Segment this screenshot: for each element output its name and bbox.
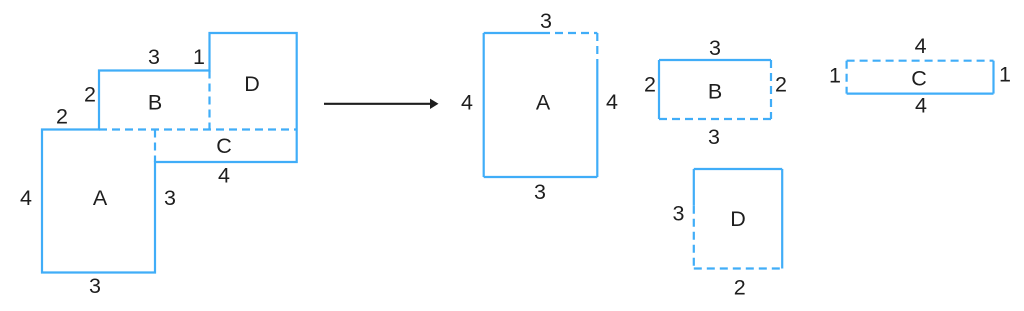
svg-text:C: C bbox=[216, 134, 232, 158]
hidden edge: left of C / right of A (dashed) bbox=[154, 130, 156, 163]
svg-text:B: B bbox=[708, 80, 722, 104]
svg-text:4: 4 bbox=[20, 186, 32, 210]
D bottom edge (dashed) bbox=[694, 267, 782, 269]
rectangle B (separated) bbox=[644, 36, 787, 149]
A bottom edge (solid) bbox=[484, 176, 598, 178]
svg-text:2: 2 bbox=[644, 73, 656, 97]
A right edge dashed part bbox=[596, 33, 598, 63]
B right edge (dashed) bbox=[770, 60, 772, 119]
rectangle C (separated) bbox=[829, 34, 1011, 118]
svg-text:3: 3 bbox=[164, 186, 176, 210]
svg-text:2: 2 bbox=[56, 105, 68, 129]
svg-text:D: D bbox=[730, 207, 746, 231]
B left edge (solid) bbox=[658, 60, 660, 119]
svg-text:B: B bbox=[148, 91, 162, 115]
composite figure outline (A+B+C+D overlapped) bbox=[42, 33, 297, 273]
D top edge (solid) bbox=[694, 168, 782, 170]
svg-text:2: 2 bbox=[84, 83, 96, 107]
svg-text:3: 3 bbox=[148, 45, 160, 69]
svg-text:3: 3 bbox=[534, 180, 546, 204]
svg-text:D: D bbox=[244, 72, 260, 96]
D right edge (solid) bbox=[781, 169, 783, 269]
svg-text:3: 3 bbox=[540, 9, 552, 33]
svg-text:3: 3 bbox=[708, 125, 720, 149]
svg-text:4: 4 bbox=[915, 34, 927, 58]
svg-text:2: 2 bbox=[734, 276, 746, 300]
rectangle A (separated) bbox=[461, 9, 618, 204]
B bottom edge (dashed) bbox=[659, 118, 771, 120]
rectangle D (separated) bbox=[673, 169, 783, 300]
hidden edge: bottom of B / top of C (dashed) bbox=[99, 128, 297, 130]
svg-text:3: 3 bbox=[709, 36, 721, 60]
C top edge (dashed) bbox=[847, 60, 994, 62]
svg-text:4: 4 bbox=[606, 90, 618, 114]
svg-text:3: 3 bbox=[89, 274, 101, 298]
svg-text:2: 2 bbox=[775, 73, 787, 97]
C right edge (solid) bbox=[992, 61, 994, 94]
svg-text:C: C bbox=[911, 67, 927, 91]
svg-text:4: 4 bbox=[461, 91, 473, 115]
C left edge (dashed) bbox=[845, 61, 847, 94]
svg-text:4: 4 bbox=[915, 94, 927, 118]
A top edge solid part bbox=[484, 32, 542, 34]
svg-text:A: A bbox=[536, 91, 551, 115]
svg-text:1: 1 bbox=[999, 63, 1011, 87]
arrow bbox=[324, 103, 432, 105]
svg-text:1: 1 bbox=[829, 64, 841, 88]
A right edge solid part bbox=[596, 63, 598, 178]
A left edge (solid) bbox=[483, 33, 485, 177]
svg-text:4: 4 bbox=[218, 164, 230, 188]
D left edge solid part bbox=[693, 169, 695, 206]
A top edge dashed part bbox=[542, 32, 597, 34]
hidden edge: right of B / left of D (dashed) bbox=[208, 71, 210, 130]
svg-text:1: 1 bbox=[193, 45, 205, 69]
C bottom edge (solid) bbox=[847, 92, 994, 94]
svg-text:3: 3 bbox=[673, 202, 685, 226]
D left edge dashed part bbox=[693, 206, 695, 269]
svg-text:A: A bbox=[93, 186, 108, 210]
B top edge (solid) bbox=[659, 59, 771, 61]
